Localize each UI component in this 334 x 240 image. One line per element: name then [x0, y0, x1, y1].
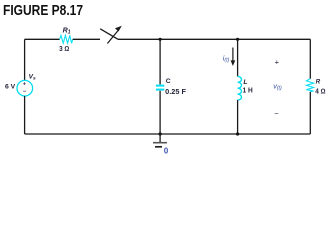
svg-text:1 H: 1 H [243, 87, 253, 94]
wire top-left segment [25, 38, 60, 40]
wire R1 to switch [73, 38, 100, 40]
svg-text:0: 0 [164, 146, 169, 155]
current arrow i(t) [231, 48, 236, 67]
voltage source Vs [17, 80, 33, 96]
node inductor top [236, 38, 239, 41]
resistor R [306, 79, 313, 92]
wire capacitor branch upper [159, 39, 161, 84]
svg-text:+: + [23, 82, 26, 88]
wire inductor branch upper [237, 39, 239, 76]
inductor L [238, 76, 242, 100]
svg-text:R: R [316, 79, 321, 86]
wire left side lower [24, 96, 26, 134]
ground [153, 134, 167, 147]
wire inductor branch lower [237, 100, 239, 134]
resistor R1 [60, 35, 73, 43]
svg-text:3 Ω: 3 Ω [59, 46, 69, 53]
wire right side lower [309, 92, 311, 134]
node ground junction [159, 132, 162, 135]
svg-text:FIGURE P8.17: FIGURE P8.17 [3, 2, 83, 19]
wire right side upper [309, 39, 311, 78]
node capacitor top [159, 38, 162, 41]
wire bottom [25, 133, 311, 135]
switch blade [100, 29, 118, 40]
svg-text:0.25 F: 0.25 F [165, 89, 187, 96]
svg-text:4 Ω: 4 Ω [315, 88, 325, 95]
svg-text:C: C [166, 78, 171, 85]
svg-text:−: − [274, 109, 279, 118]
wire left side upper [24, 39, 26, 80]
switch arrow [107, 26, 121, 44]
node inductor bottom [236, 132, 239, 135]
svg-text:6 V: 6 V [5, 83, 16, 90]
wire switch to top-right corner [118, 38, 310, 40]
svg-text:+: + [275, 57, 280, 66]
svg-text:L: L [243, 79, 247, 86]
wire capacitor branch lower [159, 91, 161, 134]
capacitor C [156, 86, 164, 90]
